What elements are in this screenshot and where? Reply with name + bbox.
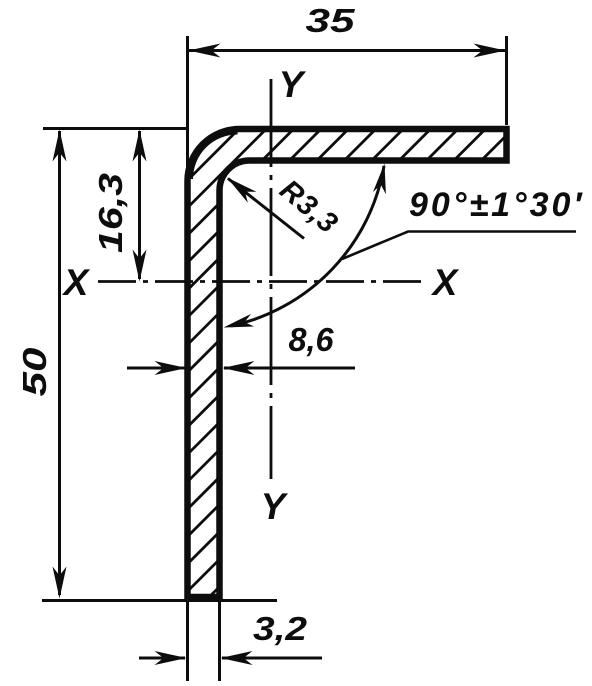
svg-text:35: 35 — [306, 2, 356, 39]
svg-text:Y: Y — [261, 486, 289, 527]
svg-text:3,2: 3,2 — [253, 610, 308, 647]
svg-text:X: X — [62, 262, 91, 303]
svg-text:90°±1°30′: 90°±1°30′ — [409, 186, 585, 224]
svg-text:50: 50 — [16, 347, 53, 397]
svg-text:16,3: 16,3 — [92, 173, 129, 253]
svg-text:Y: Y — [279, 64, 307, 105]
svg-text:X: X — [431, 262, 460, 303]
svg-text:8,6: 8,6 — [289, 321, 335, 358]
